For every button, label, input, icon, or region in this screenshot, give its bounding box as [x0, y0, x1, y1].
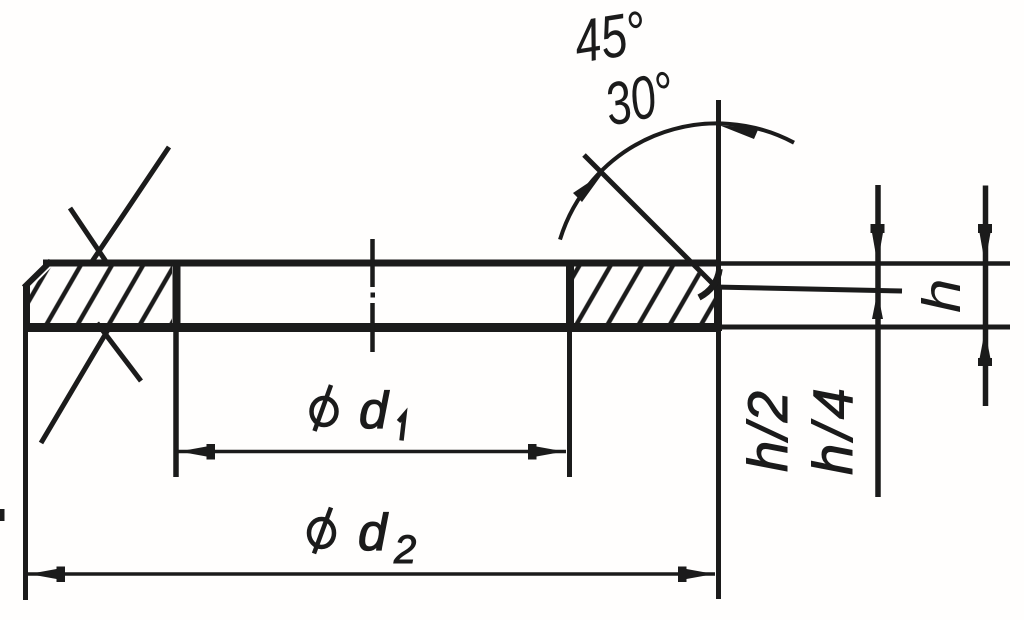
svg-text:30°: 30° — [599, 60, 680, 140]
svg-text:h/4: h/4 — [801, 384, 864, 475]
svg-text:h/2: h/2 — [736, 390, 799, 472]
svg-text:d: d — [359, 382, 390, 440]
svg-text:h: h — [912, 278, 972, 313]
svg-text:d: d — [358, 504, 389, 562]
svg-text:2: 2 — [393, 528, 416, 572]
